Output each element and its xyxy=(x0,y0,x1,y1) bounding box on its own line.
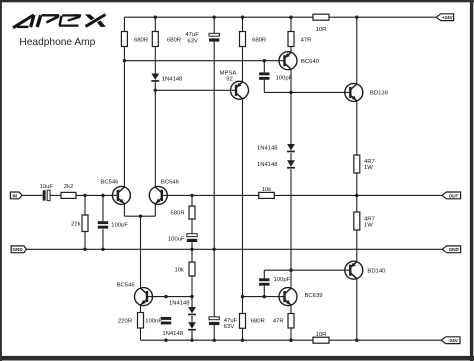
svg-text:10k: 10k xyxy=(175,267,185,273)
node GND / 22k xyxy=(83,248,86,251)
wire compensation cap bottom column xyxy=(263,270,265,296)
transistor MPSA92 Q4 (VAS) xyxy=(231,81,249,99)
wire Q1 collector column xyxy=(123,17,125,187)
wire Q3 base line xyxy=(153,296,193,298)
svg-text:680R: 680R xyxy=(171,211,185,217)
node BC639 collector / BD140 base xyxy=(289,269,292,272)
svg-text:100pF: 100pF xyxy=(276,76,293,82)
node output xyxy=(355,194,358,197)
svg-text:100nF: 100nF xyxy=(145,319,162,325)
transistor BD140 Q8 (lower output) xyxy=(345,261,386,279)
node input / 100pF xyxy=(101,194,104,197)
node Q3 base / bias chain xyxy=(190,295,193,298)
svg-text:47uF: 47uF xyxy=(185,32,199,38)
svg-text:10R: 10R xyxy=(316,332,327,338)
svg-text:BC639: BC639 xyxy=(305,293,323,299)
svg-text:680R: 680R xyxy=(251,319,265,325)
svg-text:BC546: BC546 xyxy=(117,283,136,289)
svg-text:IN: IN xyxy=(12,193,17,198)
node bias rail / comp cap xyxy=(263,59,266,62)
connector GND right xyxy=(442,246,461,253)
transistor BC546 Q2 (diff pair right) xyxy=(149,179,179,204)
connector +24V xyxy=(436,14,453,21)
wire BC639 base line xyxy=(243,296,280,298)
wire BC640 collector to BD139 base xyxy=(264,91,345,93)
capacitor 10uF input xyxy=(40,184,54,200)
resistor 2k2 (input series) xyxy=(61,184,76,198)
transistor BC640 Q6 (upper driver) xyxy=(279,52,320,70)
svg-text:47uF: 47uF xyxy=(224,318,238,324)
svg-text:63V: 63V xyxy=(224,324,235,330)
svg-text:100pF: 100pF xyxy=(111,223,128,229)
node feedback divider xyxy=(190,194,193,197)
svg-text:100uF: 100uF xyxy=(168,236,185,242)
node -rail / 47uF xyxy=(213,339,216,342)
diode 1N4148 (bias lower) xyxy=(257,160,295,168)
wire +24V top rail xyxy=(124,16,436,18)
node Q3 base / 100nF xyxy=(164,295,167,298)
svg-text:4R7: 4R7 xyxy=(364,159,375,165)
svg-text:1N4148: 1N4148 xyxy=(257,145,278,151)
resistor 4R7 1W (upper output) xyxy=(354,155,375,173)
node +rail / VAS emitter xyxy=(241,16,244,19)
wire -24V bottom rail xyxy=(141,339,442,341)
node D1 / MPSA92 base xyxy=(154,89,157,92)
node -rail / bias diodes xyxy=(190,339,193,342)
svg-text:1N4148: 1N4148 xyxy=(257,162,278,168)
wire input 100pF column xyxy=(102,195,104,249)
svg-text:BC640: BC640 xyxy=(301,59,320,65)
node -rail / 100nF xyxy=(164,339,167,342)
wire tail current source column xyxy=(140,216,142,340)
node BC639 base / comp cap xyxy=(263,295,266,298)
wire VAS column xyxy=(242,17,244,340)
svg-text:220R: 220R xyxy=(118,319,132,325)
diode 1N4148 (bias upper) xyxy=(257,144,295,152)
capacitor 100pF comp lower xyxy=(259,277,291,286)
wire feedback column xyxy=(191,195,193,340)
svg-text:BD140: BD140 xyxy=(367,268,386,274)
wire cap to 2k2 xyxy=(50,194,61,196)
node GND / 47uF column xyxy=(213,248,216,251)
svg-text:1N4148: 1N4148 xyxy=(162,331,183,337)
capacitor 100pF comp upper xyxy=(259,72,293,81)
svg-text:1W: 1W xyxy=(364,223,373,229)
wire Q2 collector column xyxy=(154,17,156,187)
wire 2k2 to Q1 base xyxy=(76,194,112,196)
resistor 47R (BC639 emitter) xyxy=(273,314,294,329)
resistor 680R (Q2 load) xyxy=(152,32,181,47)
resistor 10k (feedback) xyxy=(259,187,275,199)
resistor 10R (-24V rail) xyxy=(313,332,329,343)
node +rail / BD139 collector xyxy=(355,16,358,19)
node -rail / 47R xyxy=(289,339,292,342)
wire diff pair emitter join xyxy=(124,204,155,216)
capacitor 100uF feedback xyxy=(168,234,197,243)
node GND / 100pF xyxy=(101,248,104,251)
svg-text:1N4148: 1N4148 xyxy=(162,76,183,82)
node BC639 base / VAS xyxy=(241,295,244,298)
wire diode D1 to MPSA92 base xyxy=(155,89,230,91)
svg-text:-24V: -24V xyxy=(448,338,458,343)
svg-text:Headphone Amp: Headphone Amp xyxy=(19,37,95,48)
node +rail / 47R xyxy=(289,16,292,19)
wire GND rail xyxy=(27,248,443,250)
diode 1N4148 (Q2 collector) xyxy=(151,74,183,83)
resistor 10R (+24V rail) xyxy=(313,14,329,33)
capacitor 100nF cs xyxy=(145,317,171,325)
svg-text:BC546: BC546 xyxy=(161,179,180,185)
node input / 22k xyxy=(83,194,86,197)
diode 1N4148 (cs bias lower) xyxy=(162,322,196,337)
wire IN to coupling cap xyxy=(22,194,43,196)
transistor BC546 Q1 (diff pair left) xyxy=(100,179,130,204)
svg-text:100pF: 100pF xyxy=(274,277,291,283)
resistor 4R7 1W (lower output) xyxy=(354,212,375,230)
wire 22k column xyxy=(84,195,86,249)
resistor 680R (VAS top) xyxy=(240,32,267,47)
connector IN xyxy=(10,192,22,199)
resistor 680R (Q1 load) xyxy=(121,32,148,47)
capacitor 47uF +rail xyxy=(185,32,219,45)
resistor 47R (BC640 emitter) xyxy=(288,32,311,47)
node tail join xyxy=(139,215,142,218)
svg-text:10R: 10R xyxy=(316,27,327,33)
svg-text:+24V: +24V xyxy=(442,15,454,20)
capacitor 47uF -rail xyxy=(209,317,238,330)
svg-text:1N4148: 1N4148 xyxy=(169,301,190,307)
resistor 10k (bias chain) xyxy=(175,262,196,276)
transistor BC639 Q5 (lower driver) xyxy=(279,288,323,306)
svg-text:47R: 47R xyxy=(273,319,284,325)
resistor 22k (input shunt) xyxy=(71,215,88,232)
svg-text:680R: 680R xyxy=(252,38,266,44)
node +rail / 47uF xyxy=(213,16,216,19)
svg-text:10k: 10k xyxy=(262,187,272,193)
svg-text:63V: 63V xyxy=(187,39,198,45)
connector -24V xyxy=(441,337,460,344)
APEX logo wordmark xyxy=(13,14,106,27)
svg-text:680R: 680R xyxy=(134,38,148,44)
connector OUT xyxy=(442,192,461,199)
capacitor 100pF input xyxy=(98,221,129,228)
node +rail / Q2 load xyxy=(154,16,157,19)
node BC640 collector / BD139 base xyxy=(289,91,292,94)
svg-text:10uF: 10uF xyxy=(40,184,54,190)
svg-text:47R: 47R xyxy=(301,38,312,44)
svg-text:92: 92 xyxy=(226,77,233,83)
svg-text:1W: 1W xyxy=(364,165,373,171)
svg-text:22k: 22k xyxy=(71,222,81,228)
svg-text:2k2: 2k2 xyxy=(64,184,74,190)
wire compensation cap top column xyxy=(263,61,265,93)
svg-text:OUT: OUT xyxy=(449,193,459,198)
svg-text:680R: 680R xyxy=(167,38,181,44)
wire driver column xyxy=(290,17,292,340)
svg-text:GND: GND xyxy=(449,247,460,252)
wire Q2 base feedback line to OUT xyxy=(167,194,442,196)
svg-text:BC546: BC546 xyxy=(100,179,119,185)
transistor BD139 Q7 (upper output) xyxy=(345,83,388,101)
node -rail / 680R xyxy=(241,339,244,342)
node bias rail / Q1 load xyxy=(123,59,126,62)
wire bias rail to BC640 base xyxy=(124,60,279,62)
wire BC639 collector to BD140 base xyxy=(264,269,345,271)
svg-text:GND: GND xyxy=(12,247,23,252)
wire output column xyxy=(356,17,358,340)
transistor BC546 Q3 (tail current source) xyxy=(117,283,153,306)
svg-text:BD139: BD139 xyxy=(370,91,388,97)
connector GND left xyxy=(11,246,26,253)
svg-text:4R7: 4R7 xyxy=(364,216,375,222)
resistor 680R (feedback shunt) xyxy=(171,206,195,219)
resistor 680R (VAS bottom) xyxy=(240,314,265,329)
resistor 220R (tail emitter) xyxy=(118,313,143,329)
node GND / 100uF xyxy=(190,248,193,251)
diode 1N4148 (cs bias upper) xyxy=(169,301,196,316)
wire GND decoupling column xyxy=(213,17,215,340)
node -rail / BD140 collector xyxy=(355,339,358,342)
